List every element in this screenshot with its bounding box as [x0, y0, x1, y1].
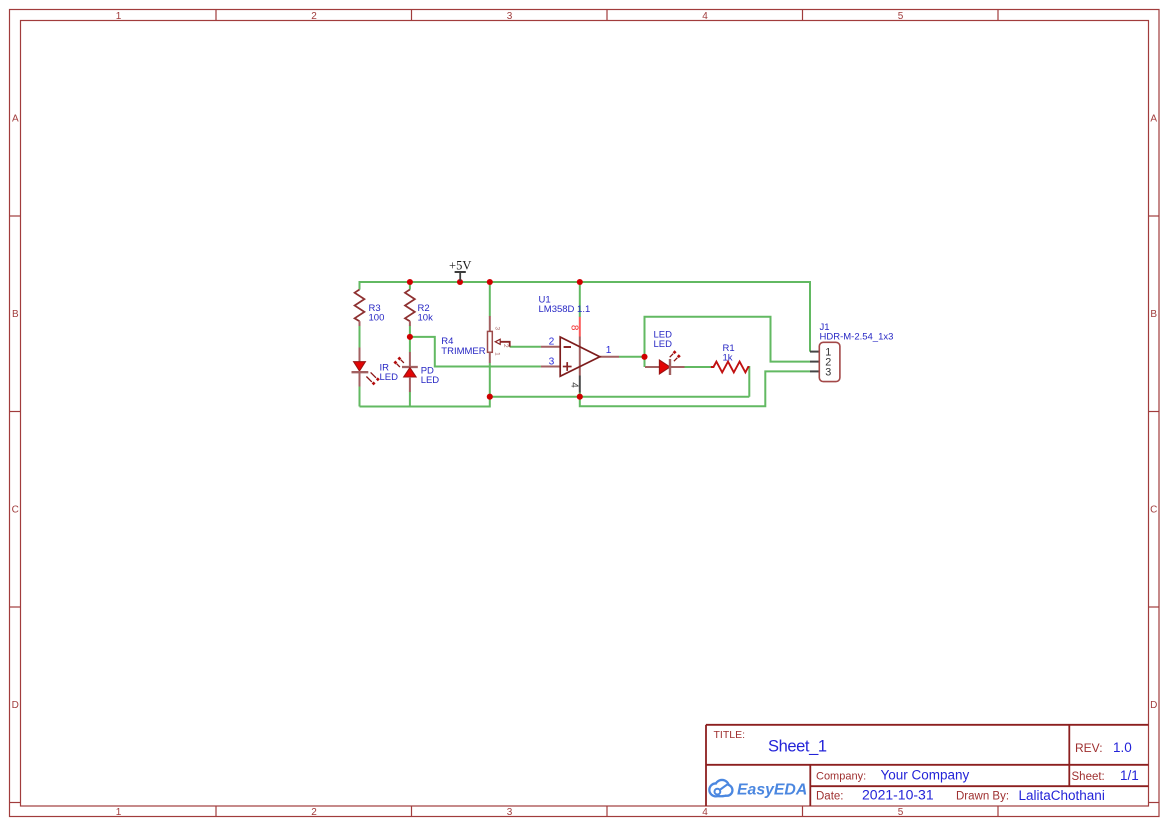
- LED (output): [645, 329, 685, 375]
- svg-text:1: 1: [116, 11, 122, 22]
- wire: op-amp output: [619, 356, 645, 358]
- svg-text:2: 2: [549, 337, 555, 348]
- svg-text:1.0: 1.0: [1113, 740, 1132, 755]
- svg-text:Date:: Date:: [816, 791, 844, 803]
- svg-text:+5V: +5V: [449, 258, 471, 272]
- op-amp U1: [539, 294, 620, 392]
- wire: trimmer wiper to op-amp pin 2: [510, 346, 541, 348]
- wire: trimmer column upper: [489, 282, 491, 316]
- connector J1: [810, 322, 893, 382]
- wire: PD LED to bottom rail: [409, 392, 411, 407]
- svg-text:1/1: 1/1: [1120, 768, 1139, 783]
- svg-text:3: 3: [549, 356, 555, 367]
- svg-text:LED: LED: [380, 372, 399, 383]
- svg-text:3: 3: [825, 366, 831, 378]
- svg-text:3: 3: [507, 807, 513, 818]
- svg-text:D: D: [1150, 700, 1157, 711]
- svg-text:5: 5: [898, 807, 904, 818]
- svg-text:Sheet:: Sheet:: [1072, 771, 1105, 783]
- svg-text:2: 2: [502, 344, 509, 348]
- wire: R2 bottom node to op-amp pin 3: [410, 337, 541, 367]
- junction: trimmer bottom ground: [487, 394, 493, 400]
- svg-text:1: 1: [606, 345, 612, 356]
- svg-text:1: 1: [493, 352, 500, 356]
- svg-text:3: 3: [493, 326, 500, 330]
- svg-text:B: B: [1150, 309, 1157, 320]
- wire: LED to R1: [684, 366, 711, 368]
- wire: R3 column upper: [359, 282, 361, 290]
- wire: output node to LED and to J1 pin 2: [645, 317, 811, 367]
- svg-text:4: 4: [702, 807, 708, 818]
- svg-text:LED: LED: [421, 375, 440, 386]
- svg-text:100: 100: [369, 312, 385, 323]
- junction: op-amp pin4 ground: [577, 394, 583, 400]
- wire: ground rail: [490, 396, 750, 398]
- svg-text:4: 4: [569, 382, 580, 388]
- svg-text:TITLE:: TITLE:: [714, 729, 746, 741]
- junction: output node: [641, 354, 647, 360]
- svg-text:5: 5: [898, 11, 904, 22]
- svg-text:REV:: REV:: [1075, 741, 1103, 755]
- svg-text:EasyEDA: EasyEDA: [737, 781, 807, 798]
- svg-text:Sheet_1: Sheet_1: [768, 738, 827, 756]
- resistor R3: [355, 290, 385, 327]
- svg-text:2: 2: [311, 11, 317, 22]
- svg-text:Your Company: Your Company: [881, 768, 970, 783]
- wire: IR LED to bottom rail: [359, 386, 361, 407]
- svg-text:4: 4: [702, 11, 708, 22]
- wire: R2 column upper: [409, 282, 411, 290]
- title block: [706, 725, 1149, 806]
- svg-text:TRIMMER: TRIMMER: [441, 346, 485, 357]
- svg-text:Company:: Company:: [816, 770, 866, 782]
- svg-text:Drawn By:: Drawn By:: [956, 791, 1009, 803]
- junction: op-amp V+: [577, 279, 583, 285]
- junction: R2 top: [407, 279, 413, 285]
- wire: op-amp pin 4 to ground rail and to J1 pin 3: [580, 371, 810, 406]
- wire: trimmer column lower and bottom-left rail: [360, 363, 490, 407]
- wire: R2 bottom to node: [409, 326, 411, 353]
- svg-text:A: A: [1150, 114, 1157, 125]
- svg-text:A: A: [12, 114, 19, 125]
- svg-text:2: 2: [311, 807, 317, 818]
- svg-text:LalitaChothani: LalitaChothani: [1019, 788, 1105, 803]
- svg-text:LED: LED: [654, 339, 673, 350]
- junction: trimmer top: [487, 279, 493, 285]
- svg-text:HDR-M-2.54_1x3: HDR-M-2.54_1x3: [820, 332, 894, 343]
- svg-text:C: C: [1150, 505, 1157, 516]
- svg-text:D: D: [12, 700, 19, 711]
- wire: V+ column to op-amp pin 8: [579, 282, 581, 317]
- svg-text:2021-10-31: 2021-10-31: [862, 787, 934, 803]
- resistor R2: [405, 290, 433, 327]
- wire: R1 to ground rail: [748, 367, 749, 397]
- wire: R3 to IR LED: [359, 326, 361, 348]
- svg-text:8: 8: [569, 325, 580, 331]
- svg-text:LM358D 1.1: LM358D 1.1: [539, 304, 591, 315]
- svg-text:B: B: [12, 309, 19, 320]
- PD LED: [393, 352, 439, 392]
- svg-text:3: 3: [507, 11, 513, 22]
- svg-text:1: 1: [116, 807, 122, 818]
- junction: +5V: [457, 279, 463, 285]
- svg-text:1k: 1k: [723, 353, 733, 364]
- svg-text:C: C: [12, 505, 19, 516]
- junction: R2 / PD LED node: [407, 334, 413, 340]
- trimmer R4: [441, 316, 509, 363]
- resistor R1: [711, 343, 749, 372]
- wire: +5V top rail and J1 pin1 column: [360, 281, 811, 352]
- svg-text:10k: 10k: [418, 312, 434, 323]
- EasyEDA logo: [711, 781, 808, 798]
- IR LED: [352, 348, 399, 387]
- power +5V: [449, 258, 471, 281]
